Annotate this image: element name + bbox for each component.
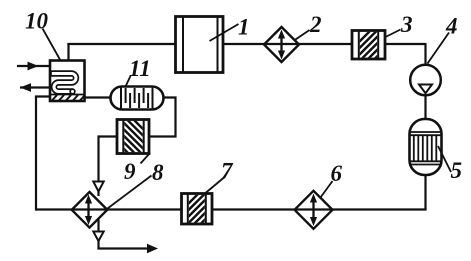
leader 9 [141,153,151,164]
adsorber 5 [410,119,442,175]
filter 3 [350,11,390,90]
expander 8 [72,192,108,228]
svg-text:6: 6 [331,161,343,186]
wire unit 9 to expander 8 [99,137,119,197]
flow triangle above 8 [93,182,103,192]
leader 1 [210,24,239,41]
filter 11 [111,87,164,110]
wire pump 4 to vessel 5 [424,94,426,121]
svg-text:1: 1 [238,15,250,40]
wire bottom rail [36,208,427,210]
wire right rail down to pump 4 [424,43,426,66]
filter 7 [178,174,218,253]
leader 11 [126,76,131,87]
leader 8 [108,176,152,209]
inlet arrow into unit 10 [17,65,52,67]
leader 6 [321,181,333,198]
wire vessel 5 down to bottom rail [424,174,426,210]
svg-text:2: 2 [309,12,322,37]
outlet arrowhead [147,244,158,254]
svg-text:11: 11 [129,56,151,81]
leader 10 [43,29,61,61]
wire unit 10 to filter 11 [84,96,113,98]
svg-text:9: 9 [124,159,136,184]
outlet arrow from unit 10 [20,86,52,88]
wire left rail [35,97,37,211]
throttle 6 [295,191,333,229]
flow triangle below 8 [93,232,103,242]
svg-text:7: 7 [221,159,234,184]
wire left rail to unit 10 [35,95,51,97]
throttle 2 [264,27,299,62]
leader 4 [428,33,450,64]
pump 4 [410,65,441,96]
svg-text:5: 5 [451,158,463,183]
leader 5 [438,146,451,172]
svg-text:10: 10 [25,9,49,34]
leader 3 [386,30,401,38]
heat exchanger 10 [50,61,85,102]
wire filter 11 to unit 9 [148,98,176,137]
leader 7 [206,178,225,194]
column 1 [176,17,224,73]
wire expander 8 outlet [99,219,149,249]
wire riser from unit 10 to top rail [67,43,69,62]
svg-text:4: 4 [445,14,458,39]
svg-text:3: 3 [400,12,413,37]
svg-text:8: 8 [152,160,164,185]
leader 2 [296,30,310,40]
wire top rail [67,43,425,45]
heater 9 [114,100,154,179]
